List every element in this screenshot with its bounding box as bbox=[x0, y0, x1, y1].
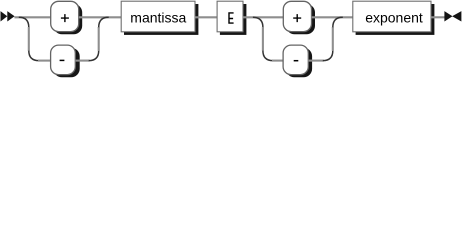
wire: bottom-left arc of choice 1 bbox=[29, 51, 39, 61]
wire: merge-up arc of choice 2 bbox=[333, 17, 343, 27]
wire: exponent box to end marker bbox=[431, 16, 445, 18]
svg-text:mantissa: mantissa bbox=[130, 9, 186, 25]
svg-text:exponent: exponent bbox=[365, 9, 423, 25]
wire: right vertical of choice 1 bbox=[98, 27, 100, 51]
wire: main line start to plus box 1 bbox=[14, 16, 50, 18]
wire: merge-up arc of choice 1 bbox=[99, 17, 109, 27]
wire: E box to plus box 2 bbox=[243, 16, 283, 18]
wire: bottom-left arc of choice 2 bbox=[263, 51, 273, 61]
terminal box "+" (choice 2) bbox=[283, 1, 315, 34]
wire: left vertical of choice 2 bbox=[262, 27, 264, 51]
wire: bottom-right arc of choice 1 bbox=[89, 51, 99, 61]
start arrow bbox=[1, 11, 15, 21]
terminal box "E" bbox=[217, 1, 246, 35]
nonterminal box "mantissa" bbox=[121, 1, 198, 35]
wire: bottom line to minus box 2 bbox=[272, 60, 283, 62]
nonterminal box "exponent" bbox=[353, 1, 435, 35]
wire: left vertical of choice 1 bbox=[28, 27, 30, 51]
wire: plus box 2 to exponent box bbox=[312, 16, 353, 18]
wire: minus box 1 to merge arc bbox=[75, 60, 89, 62]
terminal box "-" (choice 1) bbox=[51, 45, 80, 77]
wire: minus box 2 to merge arc bbox=[308, 60, 323, 62]
end marker (bowtie) bbox=[444, 11, 461, 21]
wire: plus box 1 to mantissa box bbox=[79, 16, 122, 18]
wire: right vertical of choice 2 bbox=[332, 27, 334, 51]
wire: branch-down arc (choice 2 split) bbox=[253, 17, 263, 27]
terminal box "+" (choice 1) bbox=[51, 1, 82, 34]
wire: branch-down arc (choice 1 split) bbox=[19, 17, 29, 27]
wire: mantissa box to E box bbox=[195, 16, 217, 18]
terminal box "-" (choice 2) bbox=[283, 45, 312, 77]
wire: bottom-right arc of choice 2 bbox=[323, 51, 333, 61]
wire: bottom line to minus box 1 bbox=[38, 60, 51, 62]
